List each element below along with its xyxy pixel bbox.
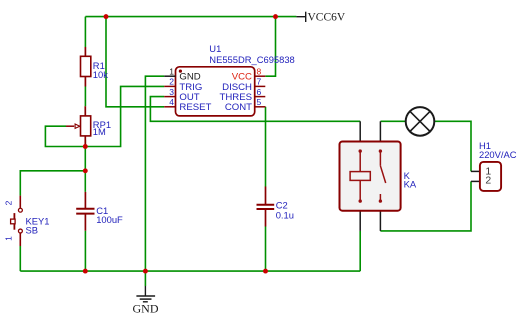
svg-text:KA: KA (404, 179, 417, 190)
pin 5 stub (255, 106, 266, 108)
pin 7 stub (255, 85, 266, 87)
resistor R1 (81, 47, 91, 87)
switch KEY1 (11, 196, 23, 246)
wire GND pin1 down (145, 76, 164, 271)
junction GND rail (143, 269, 148, 274)
wire VCC top rail (85, 16, 296, 18)
svg-text:220V/AC: 220V/AC (479, 149, 517, 160)
svg-text:2: 2 (4, 200, 14, 205)
wire C2 bottom (265, 227, 267, 272)
junction top rail left (104, 14, 109, 19)
pin 3 stub (164, 96, 175, 98)
pin 6 stub (255, 96, 266, 98)
svg-text:8: 8 (257, 66, 262, 76)
wire top rail to R1 (84, 17, 86, 47)
wire CONT pin5 to C2 (265, 107, 267, 187)
junction C1 rail (83, 269, 88, 274)
wire KEY1 bottom (19, 246, 21, 271)
svg-text:10k: 10k (93, 69, 108, 80)
junction KEY1 branch (83, 168, 88, 173)
svg-text:2: 2 (169, 77, 174, 87)
junction C2 rail (263, 269, 268, 274)
potentiometer RP1 (66, 106, 91, 146)
svg-text:VCC6V: VCC6V (308, 11, 346, 23)
svg-text:1: 1 (169, 66, 174, 76)
wire R1 to RP1 (84, 87, 86, 107)
svg-text:0.1u: 0.1u (276, 210, 294, 221)
svg-text:5: 5 (257, 97, 262, 107)
svg-text:4: 4 (169, 97, 174, 107)
pin 2 stub (164, 85, 175, 87)
lamp (406, 107, 435, 136)
wire KEY1 top branch (20, 171, 85, 196)
wire VCC to RESET pin4 (106, 17, 164, 107)
wire relay coil pin to rail (359, 231, 361, 271)
svg-text:3: 3 (169, 87, 174, 97)
svg-text:2: 2 (485, 174, 491, 186)
svg-text:RESET: RESET (179, 102, 211, 113)
wire H1 pin2 to relay contact (380, 181, 471, 231)
svg-text:CONT: CONT (225, 102, 252, 113)
svg-text:1: 1 (4, 236, 14, 241)
wire OUT pin3 to relay coil (150, 97, 360, 122)
svg-text:SB: SB (26, 224, 39, 235)
wire RP1 bottom to C1 (84, 140, 86, 192)
junction RP1 bottom (83, 144, 88, 149)
wire RP1 wiper loop (45, 126, 85, 146)
net flag VCC6V (296, 11, 345, 23)
svg-text:GND: GND (133, 302, 159, 316)
svg-text:U1: U1 (209, 43, 221, 54)
junction top rail right (273, 14, 278, 19)
wire lamp to H1 pin1 (435, 121, 471, 171)
wire GND tail (144, 271, 146, 286)
wire node junction to TRIG pin2 (85, 86, 164, 146)
wire C1 bottom to rail (84, 231, 86, 271)
wire bottom ground rail (20, 270, 360, 272)
capacitor C1 (76, 192, 94, 231)
svg-text:1M: 1M (93, 126, 106, 137)
pin 1 stub (164, 75, 175, 77)
pin 4 stub (164, 106, 175, 108)
svg-text:NE555DR_C695838: NE555DR_C695838 (209, 54, 294, 65)
ground (133, 286, 159, 316)
connector H1 (471, 162, 501, 191)
wire contact to lamp (381, 120, 406, 122)
op-amp U1 NE555 box (176, 67, 255, 116)
svg-text:6: 6 (257, 87, 262, 97)
capacitor C2 (257, 187, 275, 227)
svg-text:7: 7 (257, 77, 262, 87)
relay K box (340, 121, 401, 231)
pin 8 stub (255, 75, 266, 77)
wire VCC to pin8 (265, 17, 275, 77)
svg-text:100uF: 100uF (96, 214, 123, 225)
